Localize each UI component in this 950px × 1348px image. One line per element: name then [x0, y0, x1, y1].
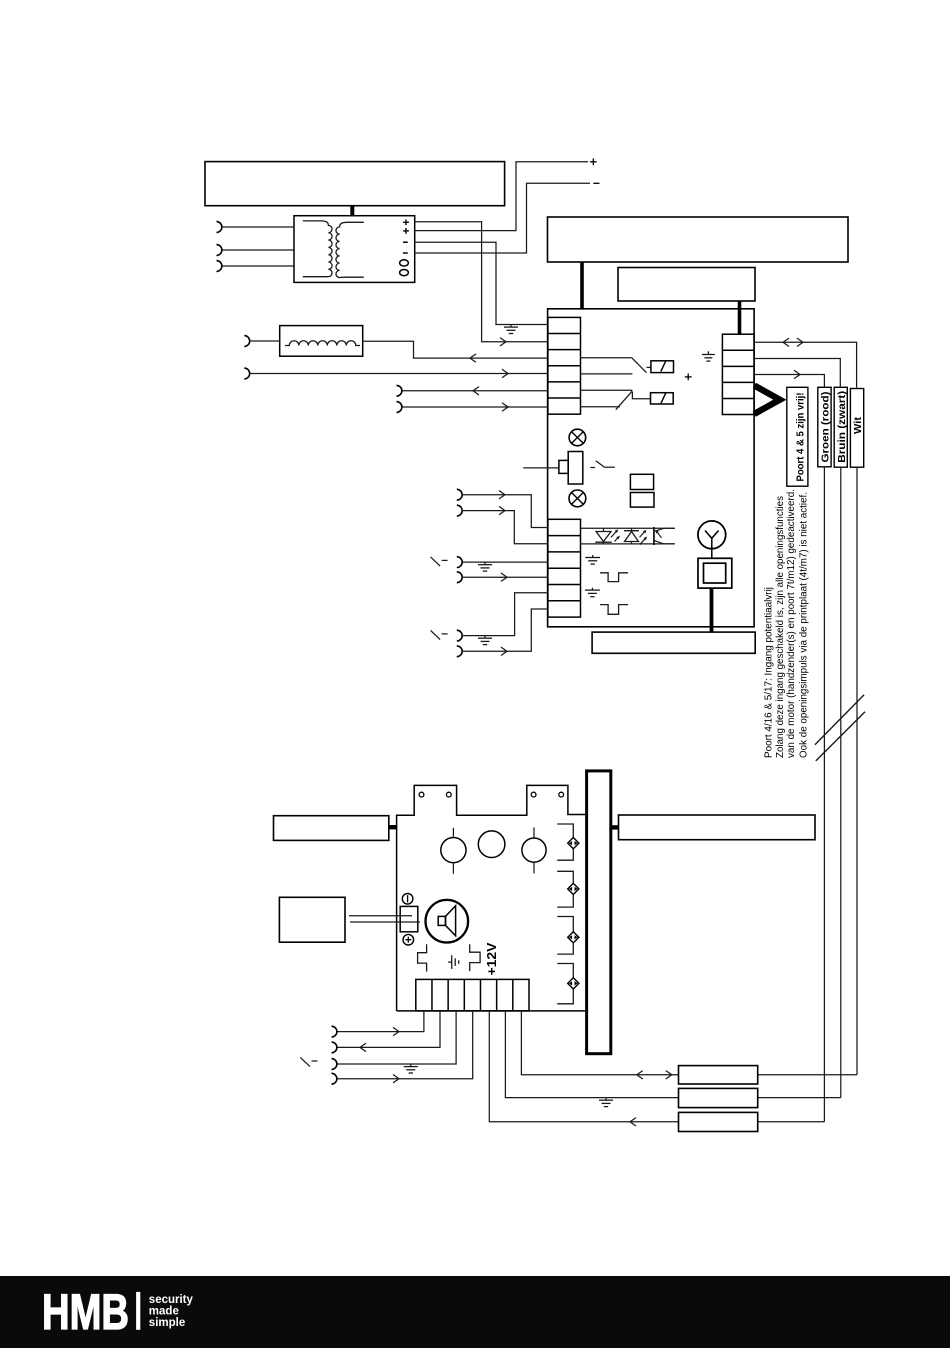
wire [349, 916, 420, 922]
wire [505, 1011, 678, 1098]
label +12V [484, 942, 499, 975]
terminal block X2 [722, 334, 754, 414]
mounting hole [559, 792, 564, 797]
wire [415, 162, 588, 231]
indicator diamonds [557, 824, 579, 1004]
wire [222, 226, 294, 228]
button B3 [522, 828, 546, 874]
ground [504, 325, 518, 334]
jumper box 1 [630, 474, 653, 489]
arrow [499, 506, 505, 514]
arrow [630, 1118, 636, 1126]
pulse mark [600, 573, 628, 582]
arrow [470, 354, 476, 362]
terminal connector [332, 1042, 337, 1053]
wire [754, 375, 824, 387]
wire [462, 609, 548, 651]
switch contact [300, 1057, 317, 1066]
terminal block X1 [548, 317, 581, 414]
terminal connector [217, 222, 222, 233]
wire [337, 1011, 456, 1064]
label + [590, 158, 597, 165]
wire [462, 511, 548, 544]
ground [478, 636, 492, 645]
ground [585, 588, 600, 597]
wire [402, 390, 548, 392]
sensor box 1 [679, 1066, 758, 1084]
power supply box U1 [205, 162, 505, 206]
wire [758, 1074, 857, 1076]
svg-text:security: security [149, 1294, 194, 1306]
arrow [499, 491, 505, 499]
arrow [360, 1043, 366, 1051]
wire [363, 341, 548, 358]
wire [754, 359, 840, 387]
wire [758, 1097, 841, 1099]
wire [389, 825, 397, 829]
cable break [815, 695, 865, 761]
wire [250, 373, 548, 375]
ground [448, 955, 459, 969]
terminal connector [332, 1073, 337, 1084]
wire [611, 825, 619, 829]
sensor box 3 [679, 1112, 758, 1131]
optocoupler U2 [581, 527, 675, 545]
label + [685, 374, 692, 381]
ground [599, 1098, 613, 1107]
terminal block X4 [416, 979, 529, 1011]
terminal connector [332, 1059, 337, 1070]
terminal connector [457, 646, 462, 657]
memory module box [592, 632, 755, 653]
switch contact [431, 630, 448, 639]
button S2 [698, 549, 732, 588]
pulse mark [418, 944, 427, 971]
arrow to poort label [754, 386, 780, 414]
terminal connector [397, 402, 402, 413]
svg-text:HMB: HMB [42, 1284, 129, 1340]
transformer T1 [294, 216, 415, 283]
svg-text:Groen (rood): Groen (rood) [821, 392, 832, 463]
ground [702, 351, 715, 361]
wire [580, 262, 584, 310]
arrow [501, 647, 507, 655]
wire [222, 265, 294, 267]
jumper box 2 [630, 493, 654, 508]
terminal connector [217, 245, 222, 256]
display box [618, 268, 755, 302]
terminal connector [457, 572, 462, 583]
relay contact K2 [581, 390, 674, 409]
wire [462, 593, 548, 636]
label Poort 4 & 5 zijn vrij! [787, 387, 808, 486]
wire [222, 249, 294, 251]
pulse mark [470, 944, 480, 971]
arrow [501, 573, 507, 581]
arrow [502, 369, 508, 377]
wire [337, 1011, 473, 1079]
terminal connector [244, 368, 249, 379]
ground [478, 562, 492, 571]
wire [462, 561, 548, 563]
lamp H2 [569, 490, 586, 507]
wire [250, 340, 280, 342]
wire [840, 467, 842, 1097]
terminal box [400, 906, 418, 931]
terminal connector [332, 1026, 337, 1037]
external device box 1 [274, 816, 389, 841]
wire [823, 467, 825, 1122]
edge connector [587, 771, 611, 1054]
terminal connector [397, 385, 402, 396]
arrow [502, 403, 508, 411]
polarity + [403, 934, 414, 945]
keypad board outline [397, 785, 587, 1011]
ground [404, 1064, 418, 1073]
switch contact [431, 557, 448, 566]
wire [856, 467, 858, 1075]
terminal block X3 [548, 519, 581, 617]
antenna ANT1 [698, 521, 726, 549]
arrow [783, 338, 803, 346]
wire [754, 342, 857, 387]
pulse mark [600, 605, 628, 615]
terminal connector [244, 336, 249, 347]
wire [350, 205, 354, 217]
ground [585, 555, 600, 564]
wire [489, 1011, 678, 1122]
wire [415, 183, 590, 253]
wire [710, 588, 714, 632]
inductor L1 [280, 326, 363, 357]
label Groen (rood) [818, 387, 832, 467]
terminal connector [457, 489, 462, 500]
label - [593, 182, 599, 184]
lamp H1 [569, 429, 586, 446]
wire [521, 1011, 678, 1075]
arrow [393, 1027, 399, 1035]
label Bruin (zwart) [834, 387, 848, 467]
svg-text:Bruin (zwart): Bruin (zwart) [837, 391, 848, 463]
switch contact [590, 461, 614, 468]
wire [462, 495, 548, 528]
wire [462, 576, 548, 578]
svg-text:made: made [149, 1306, 179, 1318]
arrow [473, 387, 479, 395]
mounting hole [419, 792, 424, 797]
terminal connector [457, 505, 462, 516]
arrow [794, 370, 800, 378]
wire [337, 1011, 440, 1048]
terminal connector [217, 261, 222, 272]
HMB logo footer [0, 1276, 950, 1348]
svg-text:Wit: Wit [853, 416, 864, 434]
main control board [548, 309, 755, 627]
arrow [500, 338, 506, 346]
external device box 2 [619, 815, 816, 840]
motor control box [548, 217, 849, 262]
wire [738, 301, 742, 335]
terminal connector [457, 630, 462, 641]
wire [415, 242, 548, 324]
wire [337, 1011, 424, 1032]
svg-text:Ook de openingsimpuls via de p: Ook de openingsimpuls via de printplaat … [799, 492, 810, 758]
note text [764, 489, 810, 758]
wire [758, 1121, 825, 1123]
speaker LS1 [426, 900, 469, 943]
svg-text:+12V: +12V [484, 942, 499, 975]
mounting hole [446, 792, 451, 797]
arrow [637, 1071, 672, 1079]
label Wit [850, 389, 864, 468]
arrow [393, 1075, 399, 1083]
svg-text:Poort 4 & 5 zijn vrij!: Poort 4 & 5 zijn vrij! [795, 393, 806, 482]
svg-text:Poort 4/16 & 5/17: Ingang pote: Poort 4/16 & 5/17: Ingang potentiaalvrij [764, 587, 775, 758]
svg-text:van de motor (handzender(s) en: van de motor (handzender(s) en poort 7t/… [786, 489, 797, 758]
wire [402, 406, 548, 408]
button B2 [478, 831, 505, 858]
external device box 3 [279, 897, 345, 942]
svg-text:simple: simple [149, 1317, 185, 1329]
relay contact K1 [581, 358, 674, 374]
mounting hole [531, 792, 536, 797]
sensor box 2 [679, 1088, 758, 1107]
wire [415, 222, 548, 342]
button B1 [441, 828, 466, 874]
svg-text:Zolang deze ingang geschakeld: Zolang deze ingang geschakeld is, zijn a… [775, 496, 786, 758]
polarity - [402, 894, 413, 905]
push button S1 [523, 452, 583, 485]
terminal connector [457, 557, 462, 568]
